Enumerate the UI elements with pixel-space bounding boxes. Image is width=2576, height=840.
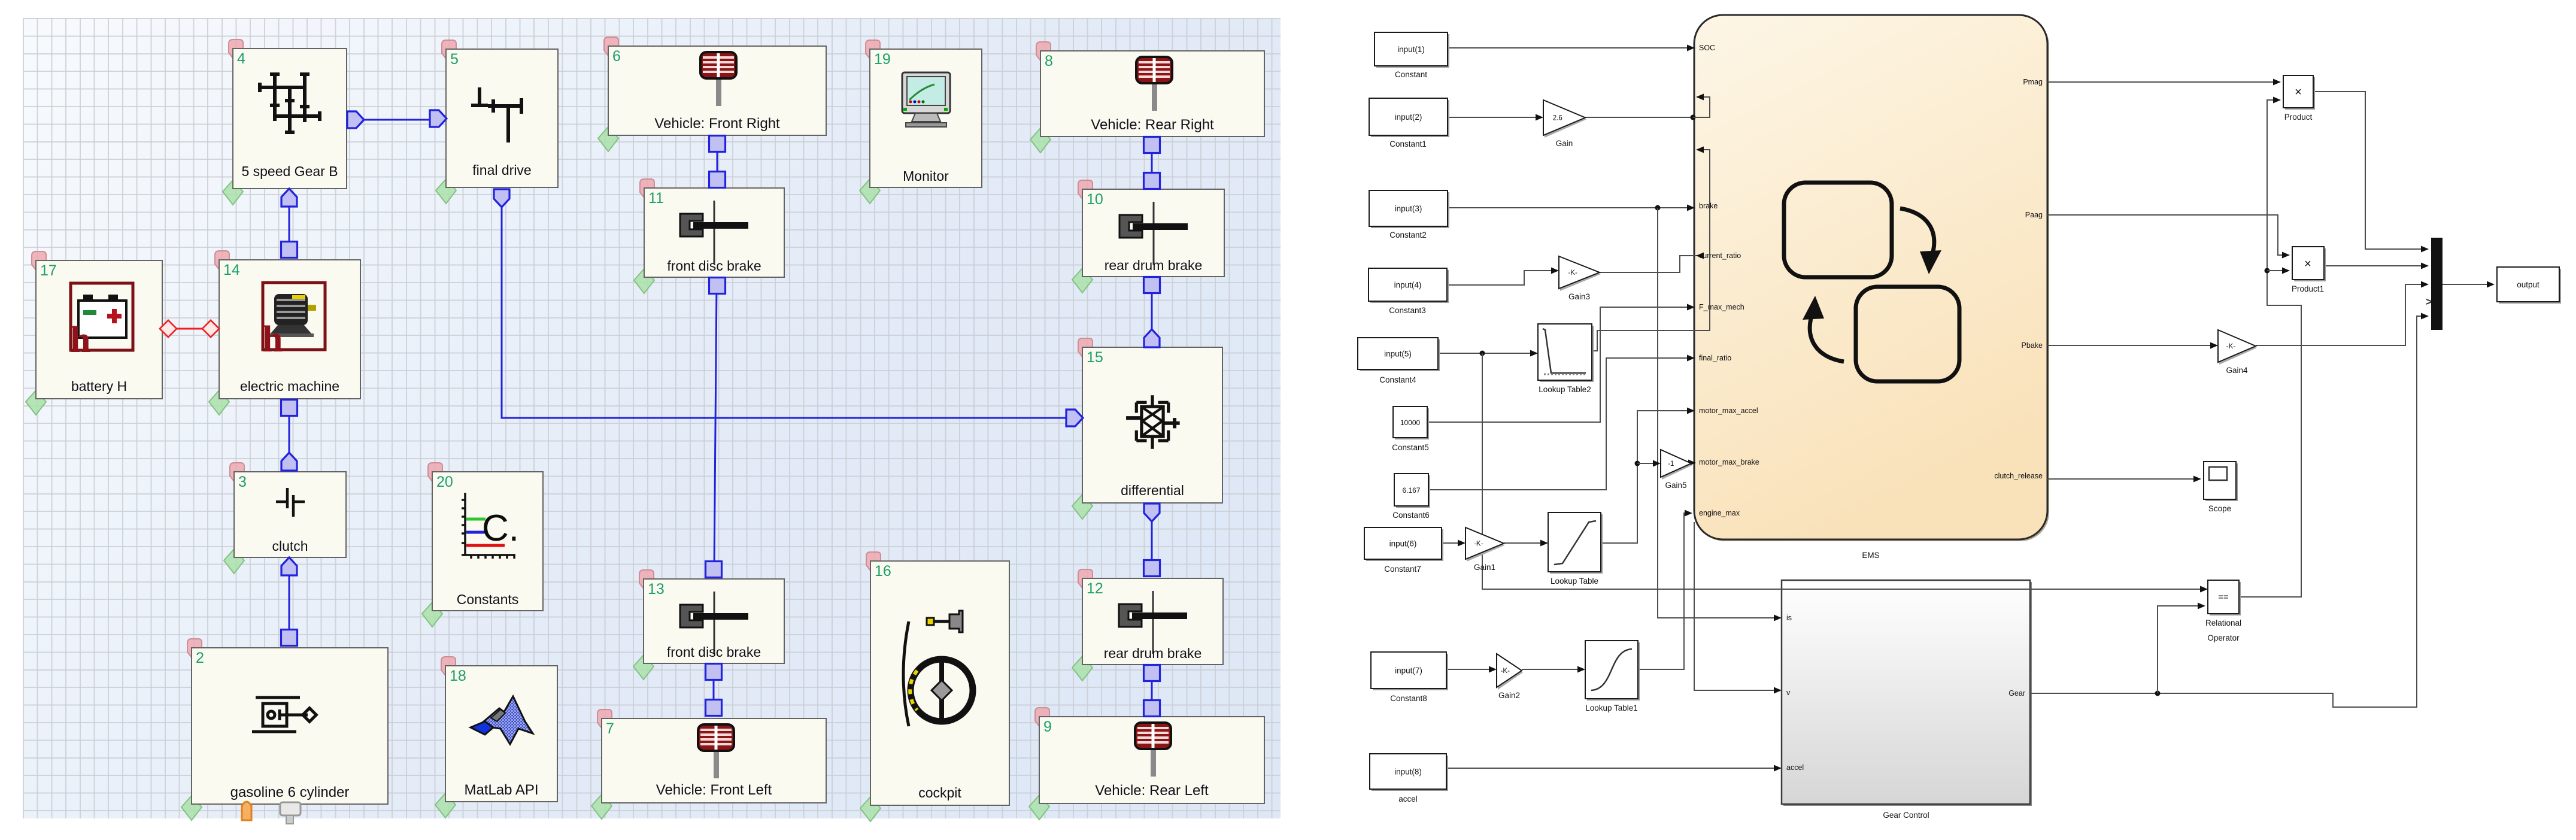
- svg-text:engine_max: engine_max: [1699, 509, 1740, 517]
- svg-text:Product1: Product1: [2292, 284, 2324, 293]
- svg-text:input(6): input(6): [1389, 539, 1417, 548]
- svg-text:2.6: 2.6: [1553, 115, 1562, 122]
- svg-text:Gear Control: Gear Control: [1883, 811, 1929, 820]
- svg-text:Constant5: Constant5: [1392, 443, 1429, 452]
- svg-text:==: ==: [2218, 592, 2229, 602]
- svg-text:Constant6: Constant6: [1392, 511, 1430, 520]
- svg-text:input(1): input(1): [1397, 45, 1425, 54]
- svg-text:brake: brake: [1699, 202, 1718, 210]
- svg-text:output: output: [2517, 280, 2539, 289]
- svg-text:input(7): input(7): [1395, 666, 1422, 675]
- svg-text:EMS: EMS: [1862, 551, 1879, 560]
- svg-text:Operator: Operator: [2207, 633, 2240, 642]
- svg-text:×: ×: [2295, 86, 2302, 99]
- svg-text:Scope: Scope: [2208, 504, 2231, 513]
- svg-text:Relational: Relational: [2205, 618, 2241, 627]
- svg-text:Gear: Gear: [2008, 689, 2025, 698]
- svg-text:v: v: [1786, 689, 1791, 697]
- svg-text:Gain2: Gain2: [1498, 691, 1520, 700]
- svg-text:Constant3: Constant3: [1389, 306, 1426, 315]
- svg-text:Pbake: Pbake: [2022, 341, 2043, 350]
- svg-text:-K-: -K-: [2226, 343, 2236, 350]
- svg-text:input(5): input(5): [1384, 350, 1412, 359]
- svg-text:-K-: -K-: [1568, 269, 1577, 277]
- svg-text:-K-: -K-: [1474, 541, 1483, 548]
- svg-text:input(8): input(8): [1394, 768, 1422, 777]
- svg-text:motor_max_brake: motor_max_brake: [1699, 458, 1759, 466]
- svg-text:Constant1: Constant1: [1389, 140, 1427, 148]
- svg-text:motor_max_accel: motor_max_accel: [1699, 407, 1758, 415]
- svg-text:accel: accel: [1786, 763, 1804, 772]
- svg-text:Constant8: Constant8: [1390, 694, 1427, 703]
- svg-text:Constant2: Constant2: [1389, 231, 1427, 239]
- svg-text:clutch_release: clutch_release: [1994, 472, 2043, 480]
- svg-text:Lookup Table: Lookup Table: [1551, 577, 1598, 586]
- svg-text:final_ratio: final_ratio: [1699, 354, 1731, 362]
- svg-text:F_max_mech: F_max_mech: [1699, 303, 1744, 311]
- svg-text:accel: accel: [1398, 794, 1418, 803]
- svg-text:Gain: Gain: [1556, 139, 1573, 148]
- svg-text:Product: Product: [2284, 113, 2313, 122]
- svg-text:is: is: [1786, 614, 1792, 622]
- svg-text:input(3): input(3): [1395, 204, 1422, 213]
- svg-text:Gain1: Gain1: [1474, 563, 1495, 572]
- svg-text:Gain3: Gain3: [1568, 292, 1590, 301]
- svg-text:SOC: SOC: [1699, 44, 1715, 52]
- svg-text:6.167: 6.167: [1402, 486, 1420, 495]
- svg-text:Constant: Constant: [1395, 70, 1427, 79]
- svg-text:-1: -1: [1668, 460, 1674, 468]
- svg-text:Gain4: Gain4: [2226, 366, 2248, 375]
- svg-text:>: >: [2426, 296, 2432, 308]
- svg-text:10000: 10000: [1400, 419, 1421, 427]
- svg-text:current_ratio: current_ratio: [1699, 251, 1741, 260]
- svg-text:Pmag: Pmag: [2023, 78, 2043, 86]
- svg-text:Lookup Table1: Lookup Table1: [1585, 703, 1638, 712]
- svg-text:Constant4: Constant4: [1379, 375, 1416, 384]
- svg-text:-K-: -K-: [1501, 668, 1510, 675]
- svg-text:×: ×: [2304, 257, 2311, 271]
- svg-text:Paag: Paag: [2025, 211, 2043, 219]
- svg-text:Gain5: Gain5: [1665, 481, 1686, 490]
- svg-text:input(4): input(4): [1394, 281, 1422, 290]
- svg-text:Constant7: Constant7: [1384, 565, 1421, 574]
- svg-text:Lookup Table2: Lookup Table2: [1539, 385, 1591, 394]
- svg-text:input(2): input(2): [1395, 113, 1422, 122]
